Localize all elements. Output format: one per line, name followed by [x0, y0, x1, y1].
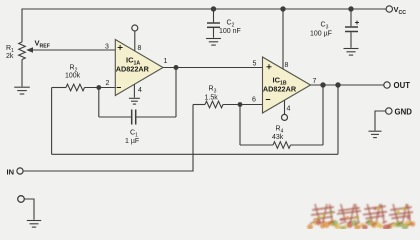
wire: spare terminal to ground: [25, 199, 35, 220]
label OUT: [394, 81, 411, 90]
resistor R3: [205, 101, 223, 108]
wiper arrow of R1: [26, 47, 33, 53]
resistor R2: [66, 84, 85, 91]
pin number 4 (IC1A): [138, 87, 142, 94]
svg-text:OUT: OUT: [394, 81, 411, 90]
wire: R4 left lead: [240, 144, 273, 146]
svg-text:GND: GND: [395, 108, 413, 117]
terminal: OUT open circle: [384, 82, 390, 88]
wire: C3 to ground: [350, 32, 352, 48]
wire: C2 to ground: [213, 28, 215, 38]
wire: R2 right lead to IC1A pin 2: [85, 87, 116, 89]
pin number 7: [313, 78, 317, 85]
svg-text:2: 2: [106, 80, 110, 87]
capacitor C1: [132, 110, 136, 125]
ground (GND terminal): [369, 131, 382, 137]
capacitor C3 (polarized): [345, 27, 358, 32]
node: junction OUT / feedback to R2: [335, 82, 340, 87]
op-amp U1A (IC1A AD822AR): [115, 40, 163, 96]
node: junction output IC1A / C1 feedback: [174, 65, 179, 70]
pin number 3: [105, 44, 109, 51]
wire: top VCC supply rail: [22, 9, 386, 42]
label VREF: [35, 39, 50, 50]
capacitor C2 branch: wire from rail: [213, 9, 215, 22]
label R2 value: [65, 65, 81, 80]
label IN: [7, 168, 15, 177]
svg-text:8: 8: [138, 45, 142, 52]
wire: feedback right vertical up to OUT node: [337, 85, 339, 154]
wire: R1 bottom to ground: [21, 60, 23, 87]
plus sign pin 3 IC1A: [118, 45, 123, 50]
wire: R2 left lead: [52, 87, 66, 89]
svg-text:4: 4: [287, 106, 291, 113]
wire: IC1B pin 8 up to VCC rail: [282, 9, 284, 69]
wire: feedback line to R2 (left vertical): [51, 88, 53, 155]
ground (lower left): [27, 221, 41, 228]
wire: IC1A output to IC1B pin 5: [163, 67, 263, 69]
node: junction OUT / R4: [320, 82, 325, 87]
watermark (colorful Chinese characters, decorative): [307, 204, 415, 231]
svg-text:43k: 43k: [272, 134, 284, 141]
resistor R1 (2k potentiometer): [19, 42, 26, 60]
pin number 4 (IC1B): [287, 106, 291, 113]
terminal: IN open circle: [17, 168, 23, 174]
wire: C1 right lead: [136, 116, 176, 118]
wire: IC1B pin 4 stub down: [284, 100, 286, 114]
wire: R3 left lead: [193, 104, 205, 106]
wire: IN input line: [23, 105, 193, 172]
capacitor C2: [207, 23, 220, 27]
svg-text:8: 8: [285, 62, 289, 69]
svg-text:100 nF: 100 nF: [219, 28, 241, 35]
ground (IC1A pin 4): [129, 98, 140, 104]
wire: IC1A pin 8 stub up: [134, 31, 136, 51]
svg-text:IN: IN: [7, 168, 15, 177]
label C2 value: [219, 20, 241, 36]
wire: R1 wiper to IC1A pin 3: [31, 49, 115, 51]
wire: IC1B output to OUT terminal: [311, 84, 384, 86]
svg-text:1.5k: 1.5k: [205, 94, 219, 101]
wire: R3 right lead to IC1B pin 6: [223, 104, 263, 106]
terminal: spare input open circle (lower left): [18, 196, 25, 203]
wire: C1 up to IC1A output: [175, 68, 177, 118]
svg-text:100k: 100k: [65, 73, 81, 80]
pin number 6: [252, 97, 256, 104]
pin number 2: [106, 80, 110, 87]
label C1 value: [125, 130, 139, 146]
op-amp U1B (IC1B AD822AR): [263, 57, 311, 113]
label GND: [395, 108, 413, 117]
pin number 8 (IC1B): [285, 62, 289, 69]
pin number 1: [164, 58, 168, 65]
plus sign of C3: [355, 21, 359, 25]
minus sign pin 6 IC1B: [266, 99, 270, 101]
wire: R4 loop right vertical to OUT node: [322, 85, 324, 145]
ground (below R1): [14, 87, 30, 94]
svg-text:7: 7: [313, 78, 317, 85]
ground (C2): [206, 39, 221, 46]
label R3 value: [205, 86, 219, 102]
wire: bottom feedback horizontal (OUT to R2): [52, 153, 338, 155]
svg-text:4: 4: [138, 87, 142, 94]
wire: IC1A pin 4 stub down: [133, 84, 135, 97]
node: junction C3 on VCC rail: [348, 6, 353, 11]
svg-text:1 µF: 1 µF: [125, 138, 139, 145]
terminal: open circle above pin 8 of IC1A: [132, 25, 138, 31]
wire: pin-2 node down to C1: [98, 88, 100, 118]
node: junction R3 / pin 6 / R4 branch: [238, 102, 243, 107]
terminal: open circle below pin 4 of IC1B: [282, 114, 288, 120]
svg-text:AD822AR: AD822AR: [263, 85, 297, 94]
svg-text:3: 3: [105, 44, 109, 51]
svg-text:5: 5: [253, 61, 257, 68]
label R1 value: [6, 45, 14, 60]
svg-text:1: 1: [164, 58, 168, 65]
label R4 value: [272, 126, 284, 142]
minus sign pin 2 IC1A: [117, 87, 121, 89]
plus sign pin 5 IC1B: [267, 64, 272, 69]
svg-text:6: 6: [252, 97, 256, 104]
capacitor C3 branch: wire from rail: [350, 9, 352, 26]
node: junction C2 on VCC rail: [211, 6, 216, 11]
wire: R4 right lead: [291, 144, 324, 146]
terminal: GND open circle: [386, 108, 392, 114]
ground (C3): [344, 49, 359, 56]
label VCC: [394, 5, 407, 16]
wire: C1 left lead: [99, 116, 131, 118]
label C3 value: [310, 22, 332, 38]
pin number 8 (IC1A): [138, 45, 142, 52]
node: junction pin 8 on VCC rail: [280, 6, 285, 11]
svg-text:2k: 2k: [6, 53, 14, 60]
svg-text:100 µF: 100 µF: [310, 31, 332, 38]
terminal: VCC open circle: [386, 6, 392, 12]
node: junction R2 / pin 2 / C1 branch: [96, 85, 101, 90]
resistor R4: [273, 142, 291, 149]
wire: R4 loop left vertical: [239, 105, 241, 146]
pin number 5: [253, 61, 257, 68]
svg-text:AD822AR: AD822AR: [116, 65, 150, 74]
wire: GND terminal to ground: [375, 111, 386, 131]
